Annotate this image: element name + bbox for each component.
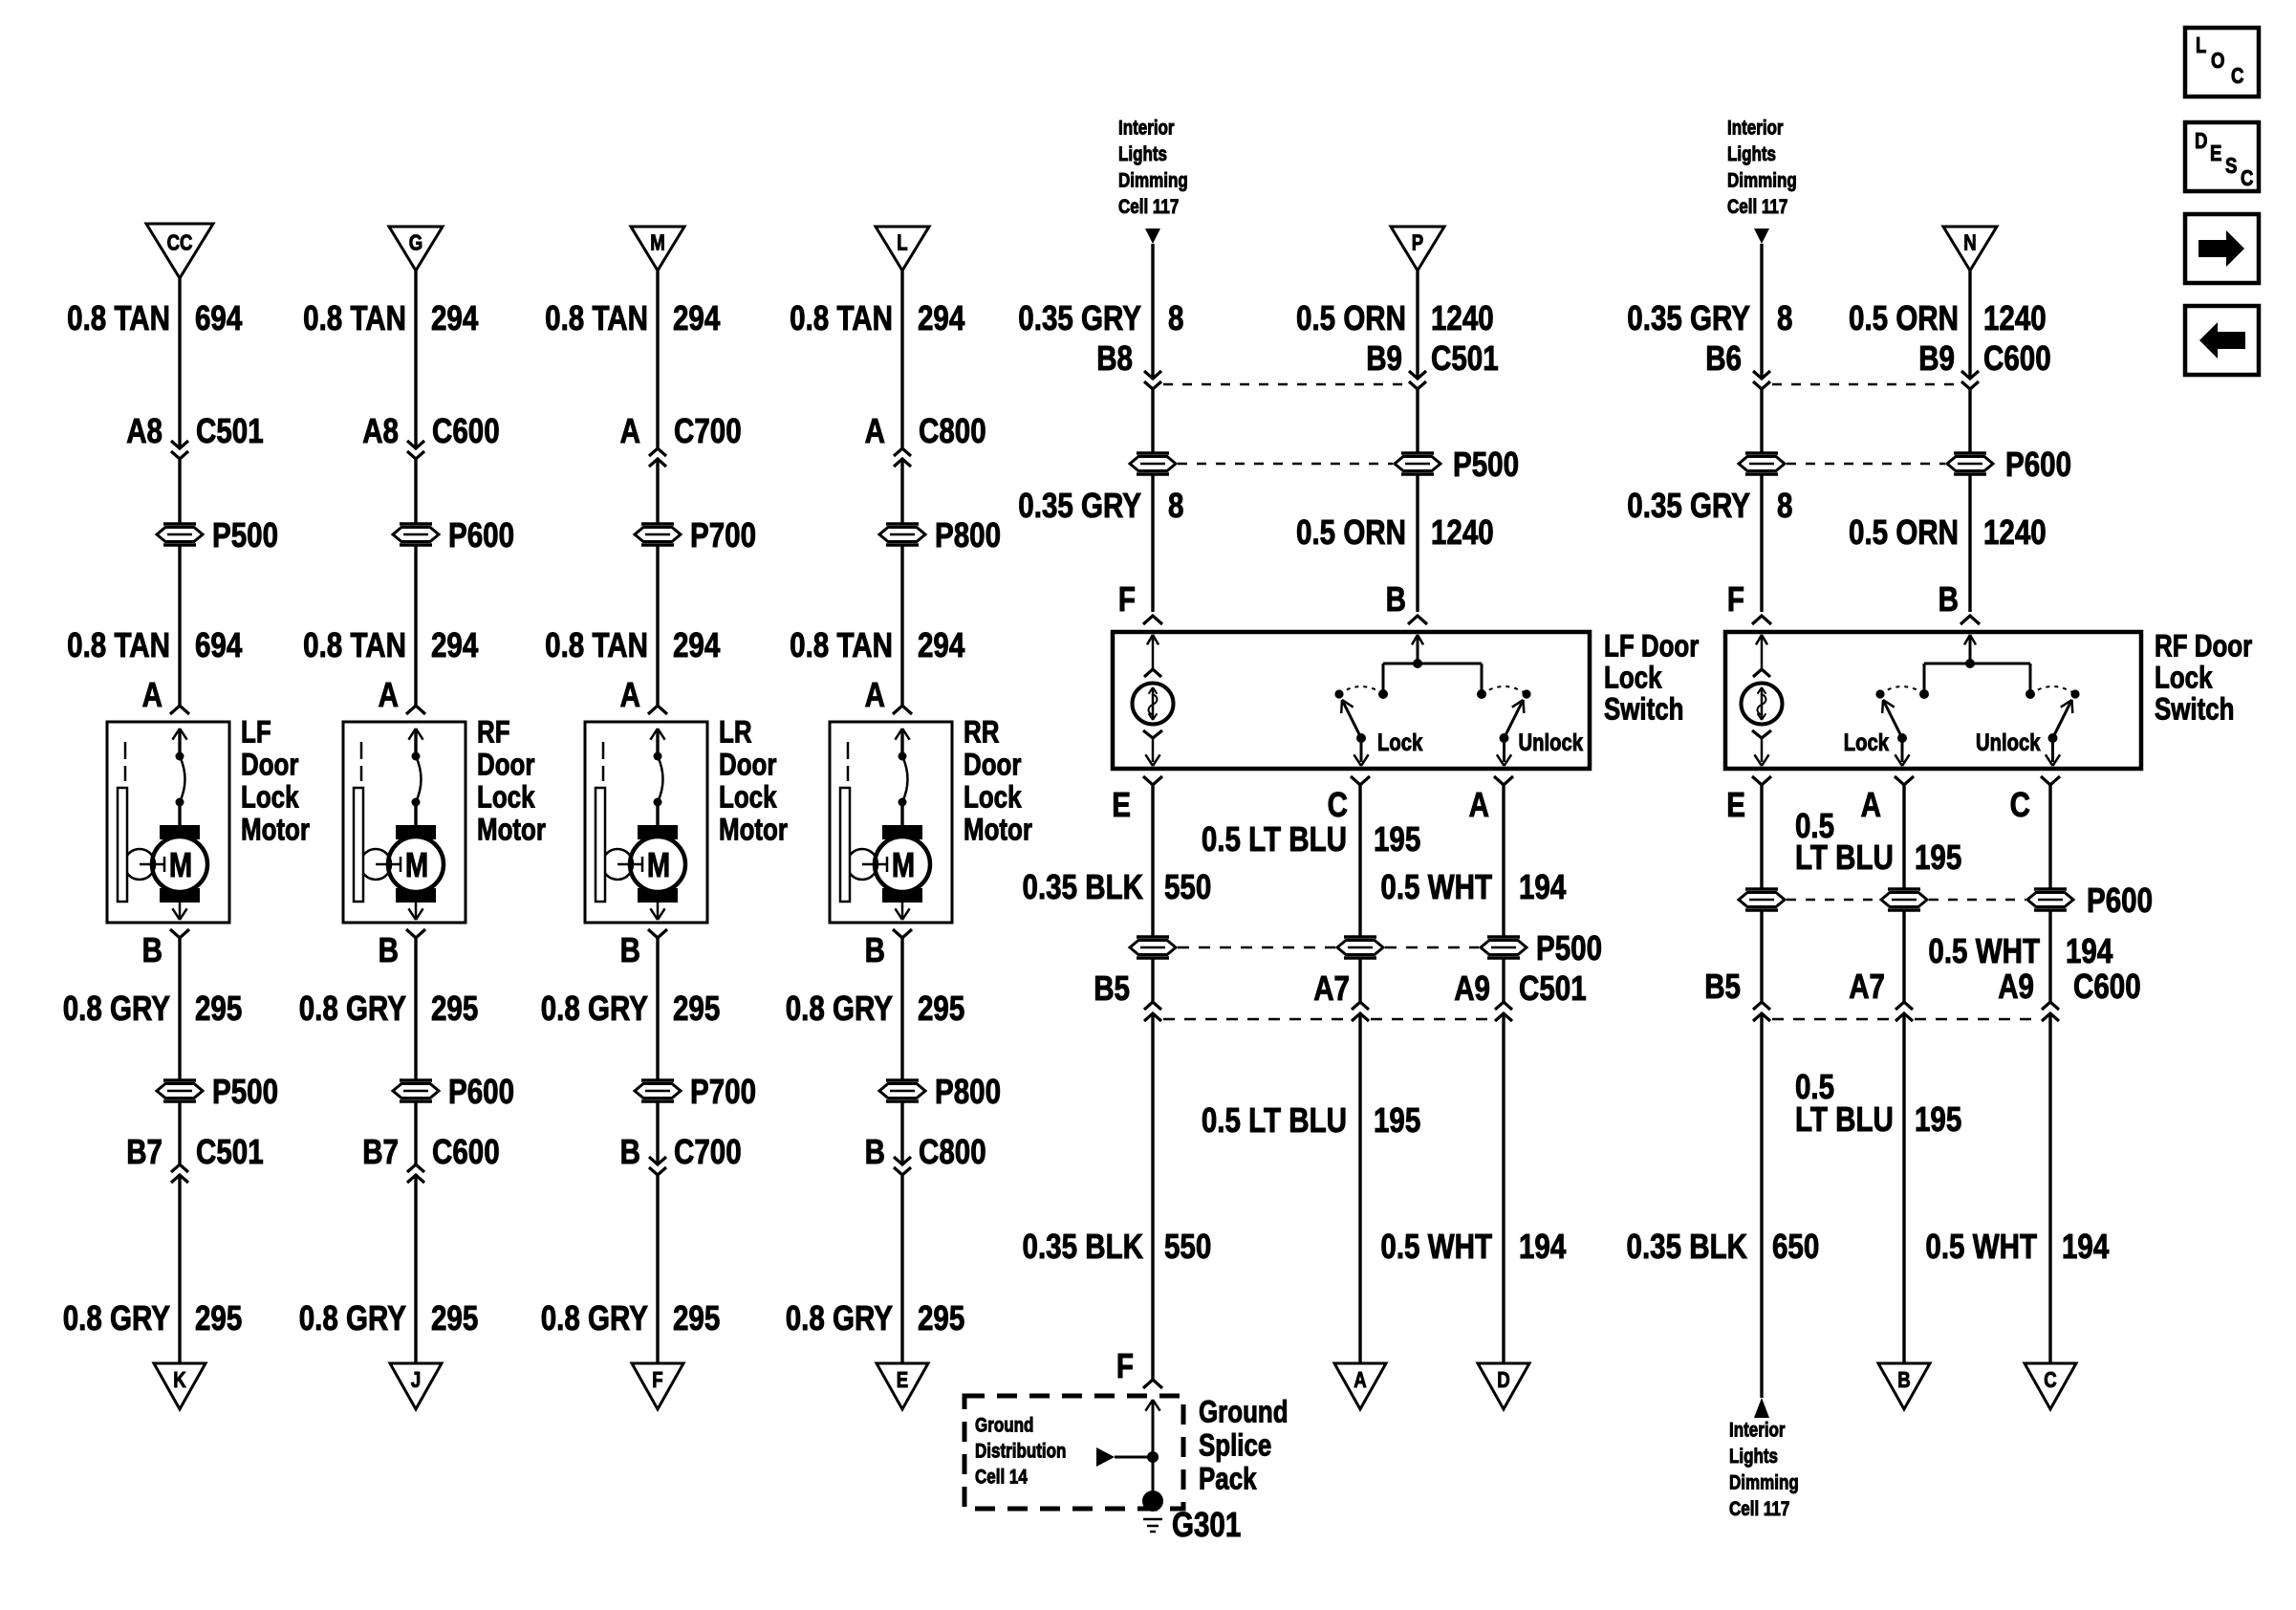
wire 0.35 GRY 8 (top) xyxy=(1627,244,1792,379)
wire 0.5 LT BLU 195 (lower A) xyxy=(1795,1013,1961,1363)
svg-text:Unlock: Unlock xyxy=(1976,729,2041,756)
svg-text:D: D xyxy=(2195,129,2207,153)
RR door lock motor xyxy=(830,716,1032,923)
svg-text:P600: P600 xyxy=(448,516,514,555)
svg-text:0.8 TAN: 0.8 TAN xyxy=(545,299,648,338)
svg-text:L: L xyxy=(897,231,908,255)
svg-text:B7: B7 xyxy=(362,1133,399,1172)
svg-text:Cell 117: Cell 117 xyxy=(1727,196,1787,218)
svg-text:294: 294 xyxy=(918,299,965,338)
svg-text:8: 8 xyxy=(1777,299,1792,338)
label Ground Splice Pack xyxy=(1199,1396,1289,1496)
svg-text:0.5 WHT: 0.5 WHT xyxy=(1925,1228,2037,1267)
svg-text:A: A xyxy=(1861,786,1881,825)
svg-text:F: F xyxy=(652,1368,662,1392)
svg-text:0.8 GRY: 0.8 GRY xyxy=(299,1299,406,1338)
svg-text:195: 195 xyxy=(1915,1100,1961,1140)
svg-text:C800: C800 xyxy=(919,1133,986,1172)
svg-text:295: 295 xyxy=(673,990,720,1029)
svg-text:Door: Door xyxy=(241,749,298,782)
svg-text:294: 294 xyxy=(673,626,721,665)
svg-text:0.8 TAN: 0.8 TAN xyxy=(790,299,893,338)
svg-text:Ground: Ground xyxy=(1199,1396,1289,1429)
wire 0.35 BLK 550 to ground, pin F xyxy=(1116,1013,1162,1388)
svg-text:Dimming: Dimming xyxy=(1729,1472,1799,1494)
svg-text:194: 194 xyxy=(1519,1228,1567,1267)
inline connector P500 pair xyxy=(1130,446,1519,485)
wire 0.8 GRY 295 (lower) xyxy=(541,1175,721,1363)
svg-text:0.5 ORN: 0.5 ORN xyxy=(1849,513,1959,553)
connector C501 pin B7 xyxy=(126,1101,263,1183)
svg-text:Lock: Lock xyxy=(477,781,535,815)
svg-text:0.8 TAN: 0.8 TAN xyxy=(303,626,406,665)
connector C600 pins B5 A7 A9 xyxy=(1704,910,2140,1021)
wire 0.8 TAN 294 (upper) xyxy=(790,271,965,448)
svg-text:295: 295 xyxy=(195,990,242,1029)
wires to inline connector xyxy=(1762,389,1970,453)
Interior Lights Dimming Cell 117 feed (top) xyxy=(1727,118,1797,244)
svg-text:L: L xyxy=(2196,33,2207,57)
svg-text:Lock: Lock xyxy=(2155,662,2213,695)
svg-text:P500: P500 xyxy=(212,516,278,555)
svg-text:Cell 117: Cell 117 xyxy=(1118,196,1179,218)
svg-text:A9: A9 xyxy=(1454,969,1490,1009)
svg-text:Unlock: Unlock xyxy=(1519,729,1584,756)
inline connector P700 (upper) xyxy=(635,516,756,555)
wire 0.8 TAN 294 (lower), pin A xyxy=(545,545,721,715)
svg-text:B5: B5 xyxy=(1704,968,1741,1007)
inline connector P500 row (lower) xyxy=(1130,929,1602,968)
svg-text:Motor: Motor xyxy=(964,814,1032,847)
svg-text:295: 295 xyxy=(195,1299,242,1338)
svg-text:294: 294 xyxy=(673,299,721,338)
wire xyxy=(414,459,417,524)
connector C600 pin B7 xyxy=(362,1101,499,1183)
svg-text:B: B xyxy=(379,931,399,970)
wire 0.8 GRY 295 (lower) xyxy=(786,1175,965,1363)
svg-text:P700: P700 xyxy=(690,516,756,555)
inline connector P600 row (lower) xyxy=(1739,881,2153,921)
svg-text:B8: B8 xyxy=(1096,339,1133,379)
svg-text:0.5 ORN: 0.5 ORN xyxy=(1296,513,1406,553)
svg-text:B5: B5 xyxy=(1094,969,1130,1009)
svg-text:F: F xyxy=(1118,580,1136,620)
ground splice pack (dashed box) xyxy=(964,1396,1183,1509)
RF door lock motor xyxy=(343,716,546,923)
connector triangle K xyxy=(154,1363,206,1409)
svg-text:C600: C600 xyxy=(2073,968,2141,1007)
svg-text:C800: C800 xyxy=(919,412,986,451)
svg-text:0.35 BLK: 0.35 BLK xyxy=(1627,1228,1747,1267)
inline connector P700 (lower) xyxy=(635,1073,756,1112)
Interior Lights Dimming Cell 117 reference (bottom) xyxy=(1729,1398,1799,1520)
svg-text:B: B xyxy=(1386,580,1406,620)
Ground Distribution Cell 14 reference xyxy=(975,1415,1153,1489)
inline connector P800 (upper) xyxy=(879,516,1001,555)
svg-text:0.5 ORN: 0.5 ORN xyxy=(1296,299,1406,338)
wire 0.5 LT BLU 195 (C) xyxy=(1202,785,1420,937)
svg-text:RF: RF xyxy=(477,716,510,750)
svg-text:P500: P500 xyxy=(212,1073,278,1112)
svg-text:1240: 1240 xyxy=(1983,513,2047,553)
svg-text:B6: B6 xyxy=(1705,339,1742,379)
svg-text:B: B xyxy=(865,931,885,970)
svg-text:F: F xyxy=(1116,1347,1134,1386)
svg-text:A: A xyxy=(620,412,640,451)
svg-text:Lights: Lights xyxy=(1729,1446,1778,1468)
connector C501 pin A8 xyxy=(126,412,263,459)
connector C800 pin A xyxy=(865,412,986,467)
wire xyxy=(656,459,659,524)
inline connector P600 pair xyxy=(1739,446,2071,485)
connector triangle A xyxy=(1334,1363,1386,1409)
svg-text:A7: A7 xyxy=(1313,969,1350,1009)
svg-text:C: C xyxy=(2241,166,2253,190)
svg-text:A8: A8 xyxy=(362,412,399,451)
svg-text:C: C xyxy=(2044,1368,2056,1392)
wire 0.8 GRY 295 (lower) xyxy=(63,1175,243,1363)
LF Door Lock Switch box xyxy=(1113,632,1590,769)
svg-text:1240: 1240 xyxy=(1431,513,1494,553)
wire 0.8 TAN 294 (lower), pin A xyxy=(790,545,965,715)
switch contacts xyxy=(1334,635,1583,766)
wire 0.5 WHT 194 (A) xyxy=(1380,785,1566,937)
wire 0.35 BLK 650 to dimming cell xyxy=(1627,1013,1820,1398)
svg-text:M: M xyxy=(892,845,915,884)
svg-text:Lights: Lights xyxy=(1727,143,1776,165)
svg-text:Interior: Interior xyxy=(1118,118,1175,140)
connector triangle C xyxy=(2025,1363,2076,1409)
pin B, wire 0.8 GRY 295 (upper) xyxy=(786,929,965,1080)
svg-text:B: B xyxy=(1897,1368,1910,1392)
svg-text:8: 8 xyxy=(1168,299,1183,338)
svg-text:G: G xyxy=(409,231,422,255)
svg-text:B: B xyxy=(620,1133,640,1172)
svg-text:Motor: Motor xyxy=(719,814,788,847)
svg-text:E: E xyxy=(1726,786,1745,825)
svg-text:F: F xyxy=(1727,580,1744,620)
inline connector P800 (lower) xyxy=(879,1073,1001,1112)
wire 0.8 GRY 295 (lower) xyxy=(299,1175,479,1363)
svg-text:B: B xyxy=(142,931,162,970)
svg-text:0.8 GRY: 0.8 GRY xyxy=(786,990,893,1029)
svg-text:294: 294 xyxy=(431,299,479,338)
svg-text:294: 294 xyxy=(431,626,479,665)
inline connector P600 (upper) xyxy=(393,516,514,555)
svg-text:Switch: Switch xyxy=(2155,693,2235,727)
svg-text:E: E xyxy=(897,1368,908,1392)
svg-text:A8: A8 xyxy=(126,412,162,451)
svg-text:B: B xyxy=(865,1133,885,1172)
svg-text:295: 295 xyxy=(431,990,478,1029)
interior lamp (dimming) xyxy=(1742,635,1783,766)
pin B, wire 0.8 GRY 295 (upper) xyxy=(299,929,479,1080)
svg-text:K: K xyxy=(173,1368,185,1392)
RF Door Lock Switch box xyxy=(1725,632,2141,769)
svg-text:Cell 117: Cell 117 xyxy=(1729,1498,1789,1520)
svg-text:Lock: Lock xyxy=(1604,662,1662,695)
svg-text:M: M xyxy=(647,845,670,884)
svg-text:650: 650 xyxy=(1772,1228,1819,1267)
svg-text:194: 194 xyxy=(1519,868,1567,907)
wire 0.5 WHT 194 (lower A) xyxy=(1380,1013,1566,1363)
svg-text:0.8 TAN: 0.8 TAN xyxy=(790,626,893,665)
connector triangle G xyxy=(389,227,443,271)
svg-text:Distribution: Distribution xyxy=(975,1441,1066,1463)
wires to inline connector xyxy=(1153,389,1418,453)
svg-text:P800: P800 xyxy=(935,516,1001,555)
wire 0.5 WHT 194 (lower C) xyxy=(1925,1013,2109,1363)
svg-text:LT BLU: LT BLU xyxy=(1795,838,1894,878)
inline connector P500 (upper) xyxy=(157,516,278,555)
svg-text:694: 694 xyxy=(195,626,243,665)
wire 0.8 TAN 294 (upper) xyxy=(303,271,479,448)
wire 0.8 TAN 294 (lower), pin A xyxy=(303,545,479,715)
wire 0.35 BLK 550 (E) xyxy=(1023,785,1212,937)
svg-text:Interior: Interior xyxy=(1727,118,1784,140)
svg-text:0.35 GRY: 0.35 GRY xyxy=(1627,487,1750,526)
LR door lock motor xyxy=(585,716,788,923)
svg-text:0.8 GRY: 0.8 GRY xyxy=(541,1299,648,1338)
svg-text:D: D xyxy=(1497,1368,1509,1392)
svg-text:550: 550 xyxy=(1164,868,1211,907)
svg-text:P500: P500 xyxy=(1536,929,1602,968)
svg-text:295: 295 xyxy=(431,1299,478,1338)
svg-text:A: A xyxy=(620,676,640,715)
svg-text:J: J xyxy=(411,1368,421,1392)
svg-text:0.5 WHT: 0.5 WHT xyxy=(1928,932,2040,971)
svg-text:Lock: Lock xyxy=(964,781,1022,815)
svg-text:M: M xyxy=(405,845,428,884)
svg-text:P500: P500 xyxy=(1453,446,1519,485)
svg-text:0.35 GRY: 0.35 GRY xyxy=(1018,487,1141,526)
connector triangle P xyxy=(1391,227,1444,271)
svg-text:A: A xyxy=(1354,1368,1366,1392)
svg-text:295: 295 xyxy=(673,1299,720,1338)
svg-text:C700: C700 xyxy=(674,412,742,451)
svg-text:Ground: Ground xyxy=(975,1415,1033,1437)
interior lamp (dimming) xyxy=(1133,635,1174,766)
svg-text:0.8 GRY: 0.8 GRY xyxy=(786,1299,893,1338)
label RF Door Lock Switch xyxy=(2155,630,2252,727)
svg-text:1240: 1240 xyxy=(1431,299,1494,338)
connector triangle M xyxy=(631,227,684,271)
svg-text:A: A xyxy=(1469,786,1489,825)
connector C501 pins B8/B9 xyxy=(1096,339,1498,389)
inline connector P600 (lower) xyxy=(393,1073,514,1112)
pin B, wire 0.8 GRY 295 (upper) xyxy=(541,929,721,1080)
svg-text:Cell 14: Cell 14 xyxy=(975,1467,1028,1489)
svg-text:M: M xyxy=(650,231,665,255)
ground splice wire and junction xyxy=(1145,1400,1159,1501)
svg-text:P600: P600 xyxy=(2005,446,2071,485)
svg-text:0.8 GRY: 0.8 GRY xyxy=(541,990,648,1029)
svg-text:Door: Door xyxy=(477,749,534,782)
connector triangle N xyxy=(1943,227,1997,271)
wire 0.5 LT BLU 195 (A) xyxy=(1795,785,1961,889)
switch contacts xyxy=(1844,635,2080,766)
svg-text:M: M xyxy=(169,845,192,884)
RF switch outputs: pins E A C xyxy=(1726,776,2060,825)
svg-text:194: 194 xyxy=(2066,932,2113,971)
svg-text:A: A xyxy=(865,412,885,451)
svg-text:0.5 LT BLU: 0.5 LT BLU xyxy=(1202,820,1347,859)
svg-text:A7: A7 xyxy=(1849,968,1885,1007)
svg-text:Lock: Lock xyxy=(1844,729,1890,756)
svg-text:0.8 GRY: 0.8 GRY xyxy=(63,1299,170,1338)
svg-text:550: 550 xyxy=(1164,1228,1211,1267)
svg-text:0.5 ORN: 0.5 ORN xyxy=(1849,299,1959,338)
svg-text:LF: LF xyxy=(241,716,271,750)
svg-text:P800: P800 xyxy=(935,1073,1001,1112)
svg-text:Interior: Interior xyxy=(1729,1420,1786,1442)
connector C800 pin B xyxy=(865,1101,986,1175)
svg-text:Motor: Motor xyxy=(477,814,546,847)
next-page arrow icon box xyxy=(2185,214,2259,283)
connector C501 pins B5 A7 A9 xyxy=(1094,958,1586,1021)
svg-text:N: N xyxy=(1963,231,1976,255)
svg-text:0.8 TAN: 0.8 TAN xyxy=(545,626,648,665)
svg-text:A: A xyxy=(865,676,885,715)
svg-text:B: B xyxy=(1939,580,1959,620)
svg-text:A: A xyxy=(379,676,399,715)
wire 0.5 WHT (C) xyxy=(2048,785,2051,889)
svg-text:Door: Door xyxy=(719,749,776,782)
svg-text:C700: C700 xyxy=(674,1133,742,1172)
svg-text:CC: CC xyxy=(167,231,193,255)
svg-text:LR: LR xyxy=(719,716,752,750)
svg-text:P: P xyxy=(1412,231,1423,255)
svg-text:RR: RR xyxy=(964,716,999,750)
svg-text:Pack: Pack xyxy=(1199,1463,1257,1496)
connector triangle E xyxy=(877,1363,928,1409)
wire 0.5 LT BLU 195 (lower C) xyxy=(1023,1013,1421,1363)
svg-text:Lights: Lights xyxy=(1118,143,1167,165)
LF switch outputs: pins E C A xyxy=(1112,776,1513,825)
svg-text:Lock: Lock xyxy=(241,781,299,815)
svg-text:0.5 WHT: 0.5 WHT xyxy=(1380,1228,1492,1267)
svg-text:G301: G301 xyxy=(1172,1506,1241,1545)
svg-text:C501: C501 xyxy=(196,1133,264,1172)
ground G301 xyxy=(1142,1490,1241,1545)
svg-text:Splice: Splice xyxy=(1199,1429,1271,1463)
svg-text:B: B xyxy=(620,931,640,970)
svg-text:S: S xyxy=(2225,154,2237,178)
svg-text:694: 694 xyxy=(195,299,243,338)
svg-text:195: 195 xyxy=(1374,1101,1420,1141)
wire 0.35 GRY 8 (top) xyxy=(1018,244,1183,379)
svg-text:E: E xyxy=(1112,786,1131,825)
svg-text:8: 8 xyxy=(1777,487,1792,526)
svg-text:0.8 GRY: 0.8 GRY xyxy=(299,990,406,1029)
svg-text:0.8 GRY: 0.8 GRY xyxy=(63,990,170,1029)
svg-text:C: C xyxy=(1328,786,1348,825)
svg-text:B9: B9 xyxy=(1918,339,1955,379)
svg-text:LT BLU: LT BLU xyxy=(1795,1100,1894,1140)
svg-text:0.8 TAN: 0.8 TAN xyxy=(303,299,406,338)
wire 0.8 TAN 294 (upper) xyxy=(545,271,721,448)
inline connector P500 (lower) xyxy=(157,1073,278,1112)
svg-text:195: 195 xyxy=(1374,820,1420,859)
svg-text:0.8 TAN: 0.8 TAN xyxy=(67,299,170,338)
svg-text:0.35 GRY: 0.35 GRY xyxy=(1627,299,1750,338)
pin B, wire 0.8 GRY 295 (upper) xyxy=(63,929,243,1080)
connector triangle L xyxy=(876,227,929,271)
connector triangle B xyxy=(1878,1363,1930,1409)
svg-text:C600: C600 xyxy=(1983,339,2051,379)
wire 0.5 ORN 1240 (top) xyxy=(1849,271,2047,379)
svg-text:Motor: Motor xyxy=(241,814,310,847)
svg-text:0.35 BLK: 0.35 BLK xyxy=(1023,868,1143,907)
connector C600 pin A8 xyxy=(362,412,499,459)
svg-text:195: 195 xyxy=(1915,838,1961,878)
svg-text:295: 295 xyxy=(918,1299,964,1338)
svg-text:295: 295 xyxy=(918,990,964,1029)
svg-text:P700: P700 xyxy=(690,1073,756,1112)
svg-text:B7: B7 xyxy=(126,1133,162,1172)
svg-text:0.8 TAN: 0.8 TAN xyxy=(67,626,170,665)
svg-text:0.35 GRY: 0.35 GRY xyxy=(1018,299,1141,338)
svg-text:C: C xyxy=(2231,64,2243,88)
connector triangle D xyxy=(1478,1363,1529,1409)
svg-text:Dimming: Dimming xyxy=(1118,170,1188,192)
svg-text:Dimming: Dimming xyxy=(1727,170,1797,192)
wire xyxy=(900,459,903,524)
svg-text:Door: Door xyxy=(964,749,1021,782)
svg-text:RF Door: RF Door xyxy=(2155,630,2252,664)
svg-text:8: 8 xyxy=(1168,487,1183,526)
svg-text:C501: C501 xyxy=(1519,969,1587,1009)
svg-text:1240: 1240 xyxy=(1983,299,2047,338)
connector triangle J xyxy=(390,1363,442,1409)
svg-text:P600: P600 xyxy=(2087,881,2153,921)
svg-text:C501: C501 xyxy=(1431,339,1499,379)
svg-text:0.5 LT BLU: 0.5 LT BLU xyxy=(1202,1101,1347,1141)
svg-text:194: 194 xyxy=(2062,1228,2110,1267)
label LF Door Lock Switch xyxy=(1604,630,1699,727)
svg-text:LF Door: LF Door xyxy=(1604,630,1699,664)
svg-text:Switch: Switch xyxy=(1604,693,1684,727)
svg-text:C501: C501 xyxy=(196,412,264,451)
wires into switch, labels xyxy=(1018,474,1493,624)
connector C600 pins B6/B9 xyxy=(1705,339,2050,389)
connector C700 pin A xyxy=(620,412,742,467)
wire 0.8 TAN 694 (lower), pin A xyxy=(67,545,243,715)
svg-text:B9: B9 xyxy=(1366,339,1402,379)
LOC icon box xyxy=(2185,28,2259,97)
wire xyxy=(178,459,181,524)
svg-text:C600: C600 xyxy=(432,1133,500,1172)
svg-text:O: O xyxy=(2211,49,2224,73)
svg-text:294: 294 xyxy=(918,626,965,665)
wires into switch, labels xyxy=(1627,474,2046,624)
svg-text:0.5 WHT: 0.5 WHT xyxy=(1380,868,1492,907)
previous-page arrow icon box xyxy=(2185,306,2259,375)
svg-text:Lock: Lock xyxy=(1377,729,1423,756)
svg-text:A: A xyxy=(142,676,162,715)
LF door lock motor xyxy=(107,716,310,923)
svg-text:0.35 BLK: 0.35 BLK xyxy=(1023,1228,1143,1267)
connector triangle CC xyxy=(146,224,213,278)
svg-text:P600: P600 xyxy=(448,1073,514,1112)
svg-text:E: E xyxy=(2210,141,2221,165)
connector C700 pin B xyxy=(620,1101,742,1175)
wire 0.5 ORN 1240 (top) xyxy=(1296,271,1494,379)
Interior Lights Dimming Cell 117 feed (top) xyxy=(1118,118,1188,244)
connector triangle F xyxy=(632,1363,683,1409)
wire 0.35 BLK (E) xyxy=(1760,785,1763,889)
wire 0.8 TAN 694 (upper) xyxy=(67,278,243,448)
